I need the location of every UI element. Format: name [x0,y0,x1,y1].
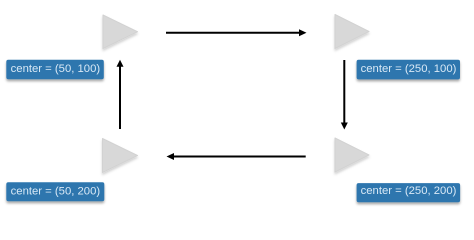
svg-text:center = (50, 200): center = (50, 200) [11,185,101,197]
svg-text:center = (50, 100): center = (50, 100) [11,63,101,75]
svg-text:center = (250, 200): center = (250, 200) [361,185,457,197]
svg-text:center = (250, 100): center = (250, 100) [361,63,457,75]
